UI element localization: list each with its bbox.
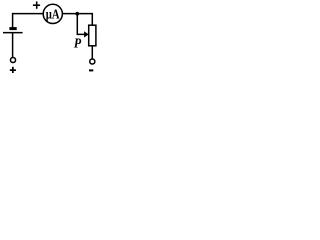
wire: battery top to ammeter (with top-left corner) bbox=[13, 14, 43, 28]
wire: wiper connection from junction to arrow bbox=[77, 15, 85, 35]
battery B: long thin positive plate bbox=[3, 32, 23, 34]
wire: battery bottom to plus terminal bbox=[12, 33, 14, 57]
potentiometer P: resistor body bbox=[89, 25, 96, 46]
wiper arrowhead of potentiometer P bbox=[84, 31, 89, 37]
terminal label - (bottom right) bbox=[89, 69, 93, 71]
terminal: minus output circle bbox=[90, 59, 95, 64]
terminal: plus output circle bbox=[10, 57, 15, 62]
battery B: short thick negative plate bbox=[9, 27, 16, 30]
polarity label + at ammeter input bbox=[33, 4, 40, 6]
wire: potentiometer bottom to minus terminal bbox=[91, 46, 93, 59]
svg-text:µA: µA bbox=[46, 6, 60, 22]
ammeter U1: microammeter circle bbox=[43, 4, 62, 23]
node: junction of wiper and top wire bbox=[75, 12, 79, 16]
terminal label + (bottom left) bbox=[10, 69, 16, 71]
wire: ammeter right to potentiometer top (top-right corner) bbox=[63, 14, 93, 25]
svg-text:P: P bbox=[74, 34, 82, 50]
